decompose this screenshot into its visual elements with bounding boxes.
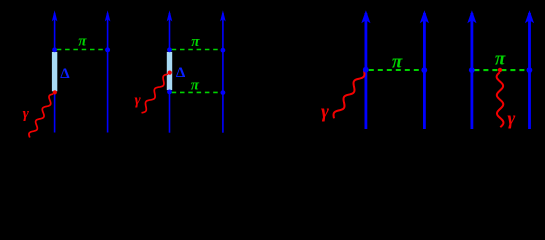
svg-text:γ: γ xyxy=(507,109,515,130)
svg-text:π: π xyxy=(78,34,87,50)
svg-text:γ: γ xyxy=(321,101,329,122)
svg-text:γ: γ xyxy=(134,92,141,108)
svg-text:Δ: Δ xyxy=(176,65,186,81)
svg-text:Δ: Δ xyxy=(60,66,70,82)
svg-text:γ: γ xyxy=(23,106,30,122)
svg-text:π: π xyxy=(191,34,200,50)
svg-text:π: π xyxy=(191,78,200,94)
svg-text:π: π xyxy=(392,51,403,72)
svg-text:π: π xyxy=(495,49,506,70)
